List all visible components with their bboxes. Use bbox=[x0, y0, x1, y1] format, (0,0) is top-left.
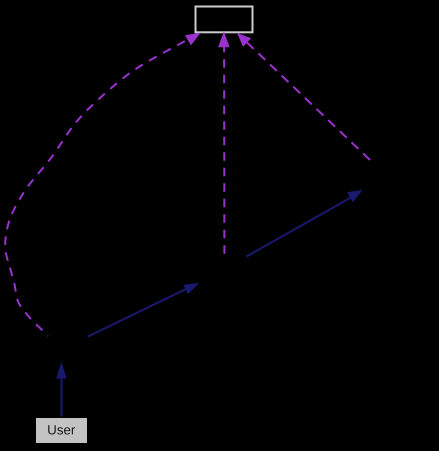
edge: solid blue from User box up to lower-left node bbox=[56, 362, 67, 417]
edge: dashed vertical from middle node to top box bbox=[223, 47, 225, 256]
arrowhead: vertical edge into bottom of top box bbox=[218, 32, 230, 48]
arrowhead: left curve into bottom-left of top box bbox=[185, 33, 201, 46]
arrowhead: right diagonal into bottom-right of top box bbox=[237, 33, 251, 47]
edge: solid blue from middle node to right node bbox=[247, 190, 363, 257]
edge: dashed diagonal from right node to top box bbox=[247, 43, 370, 161]
edge: solid blue from lower-left node to middle node bbox=[88, 283, 199, 337]
node: User box bbox=[36, 418, 87, 443]
node: top class box (empty/dark) bbox=[196, 7, 253, 33]
edge: dashed left curve from lower-left node to top box bbox=[5, 41, 185, 336]
